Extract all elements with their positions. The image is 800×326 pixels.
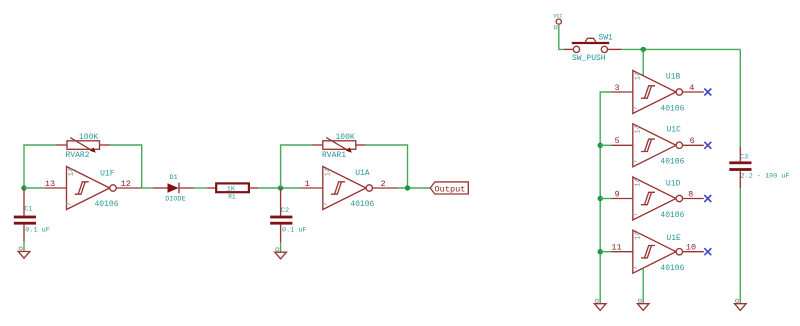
svg-text:40106: 40106 [95, 200, 119, 209]
wire: node A to U1F input [24, 187, 45, 189]
wire: bus to U1D input [600, 198, 611, 200]
svg-text:U1B: U1B [666, 72, 681, 81]
svg-text:Output: Output [435, 184, 466, 194]
svg-text:C1: C1 [24, 205, 32, 213]
svg-text:12: 12 [121, 179, 131, 189]
wire: diode to R1 [194, 187, 208, 189]
wire: C1 to ground [23, 242, 25, 252]
svg-text:C3: C3 [740, 153, 748, 161]
svg-text:1K: 1K [227, 185, 236, 193]
svg-text:7: 7 [322, 202, 330, 206]
inverter U1E [611, 230, 703, 273]
svg-text:7: 7 [632, 265, 640, 269]
capacitor C2 [270, 188, 306, 242]
switch SW1 [564, 34, 622, 63]
node A junction dot [21, 185, 26, 190]
diode D1 [153, 174, 194, 203]
svg-text:40106: 40106 [660, 264, 684, 273]
inverter U1F [45, 167, 142, 210]
inverter U1A [302, 167, 399, 210]
svg-text:40106: 40106 [660, 158, 684, 167]
node G junction dot [598, 249, 603, 254]
capacitor C3 [729, 147, 789, 188]
inverter U1C [612, 124, 704, 167]
svg-text:40106: 40106 [660, 211, 684, 220]
svg-text:40106: 40106 [660, 104, 684, 113]
svg-text:3: 3 [614, 83, 619, 93]
svg-text:8: 8 [688, 189, 693, 199]
svg-text:7: 7 [632, 106, 640, 110]
svg-text:U1C: U1C [667, 126, 682, 135]
node D junction dot [641, 47, 646, 52]
wire: rail down to U1B pin 14 [642, 49, 644, 75]
wire: U1F output to diode [142, 187, 153, 189]
no-connect U1E pin 10 [704, 248, 711, 255]
resistor RVAR1 [313, 133, 366, 160]
svg-text:100K: 100K [79, 133, 98, 142]
svg-text:40106: 40106 [350, 200, 374, 209]
power symbol VCC [554, 14, 563, 29]
wire: C1 node up to RVAR2 feedback [24, 145, 57, 188]
wire: U1A output to Output label [398, 187, 430, 189]
inverter U1B [612, 71, 704, 114]
wire: switch to C3 top rail [622, 48, 741, 50]
svg-text:10: 10 [686, 243, 696, 253]
no-connect U1B pin 4 [704, 89, 711, 96]
ground (C3) [735, 299, 747, 310]
wire: bus to U1E input [600, 251, 611, 253]
svg-text:14: 14 [634, 231, 642, 239]
svg-text:D1: D1 [170, 174, 178, 182]
svg-text:7: 7 [632, 159, 640, 163]
svg-text:SW1: SW1 [598, 34, 613, 43]
svg-text:RVAR1: RVAR1 [322, 151, 346, 160]
resistor RVAR2 [57, 133, 111, 160]
no-connect U1D pin 8 [704, 195, 711, 202]
wire: left input bus [600, 92, 611, 304]
wire: R1 to node B [258, 187, 302, 189]
svg-text:13: 13 [45, 179, 55, 189]
svg-text:2.2 - 100 uF: 2.2 - 100 uF [741, 173, 790, 181]
node F junction dot [598, 196, 603, 201]
node B junction dot [278, 185, 283, 190]
wire: U1E pin 7 to ground [642, 268, 644, 304]
svg-text:100K: 100K [336, 133, 355, 142]
svg-text:1: 1 [305, 179, 310, 189]
node E junction dot [598, 143, 603, 148]
svg-text:RVAR2: RVAR2 [66, 151, 90, 160]
svg-text:U1F: U1F [100, 170, 115, 179]
svg-text:14: 14 [68, 168, 76, 176]
svg-text:R1: R1 [228, 193, 236, 200]
wire: C2 to ground [280, 242, 282, 252]
svg-text:14: 14 [634, 72, 642, 80]
svg-text:C2: C2 [281, 207, 289, 215]
svg-text:2: 2 [380, 179, 385, 189]
resistor R1 [208, 183, 259, 200]
svg-text:11: 11 [611, 243, 621, 253]
svg-text:7: 7 [66, 202, 74, 206]
svg-text:SW_PUSH: SW_PUSH [572, 54, 606, 63]
svg-text:14: 14 [634, 178, 642, 186]
svg-text:0.1 uF: 0.1 uF [25, 226, 49, 234]
svg-text:7: 7 [632, 212, 640, 216]
capacitor C1 [14, 188, 50, 242]
svg-text:5: 5 [614, 136, 619, 146]
svg-text:9: 9 [614, 189, 619, 199]
inverter U1D [612, 177, 704, 220]
wire: C3 to ground [739, 188, 741, 304]
ground (U1E pin 7) [637, 299, 649, 310]
svg-text:DIODE: DIODE [165, 195, 185, 203]
node C junction dot [405, 185, 410, 190]
svg-text:4: 4 [689, 83, 694, 93]
svg-text:U1E: U1E [666, 234, 681, 243]
wire: RVAR2 right to U1F output node [110, 145, 142, 188]
svg-text:14: 14 [324, 168, 332, 176]
svg-text:0.1 uF: 0.1 uF [282, 227, 306, 235]
svg-text:U1A: U1A [355, 169, 370, 178]
svg-text:U1D: U1D [666, 180, 681, 189]
svg-text:14: 14 [634, 125, 642, 133]
net label Output [430, 182, 468, 194]
ground (C2) [275, 248, 287, 259]
wire: bus to U1C input [600, 144, 611, 146]
ground (input bus) [594, 299, 606, 310]
wire: rail down right side to C3 [739, 49, 741, 147]
wire: VCC to switch [559, 24, 564, 49]
no-connect U1C pin 6 [704, 142, 711, 149]
svg-text:6: 6 [690, 136, 695, 146]
wire: node B up to RVAR1 feedback [281, 145, 313, 188]
ground (C1) [18, 247, 30, 258]
wire: RVAR1 right to U1A output node [366, 145, 408, 188]
